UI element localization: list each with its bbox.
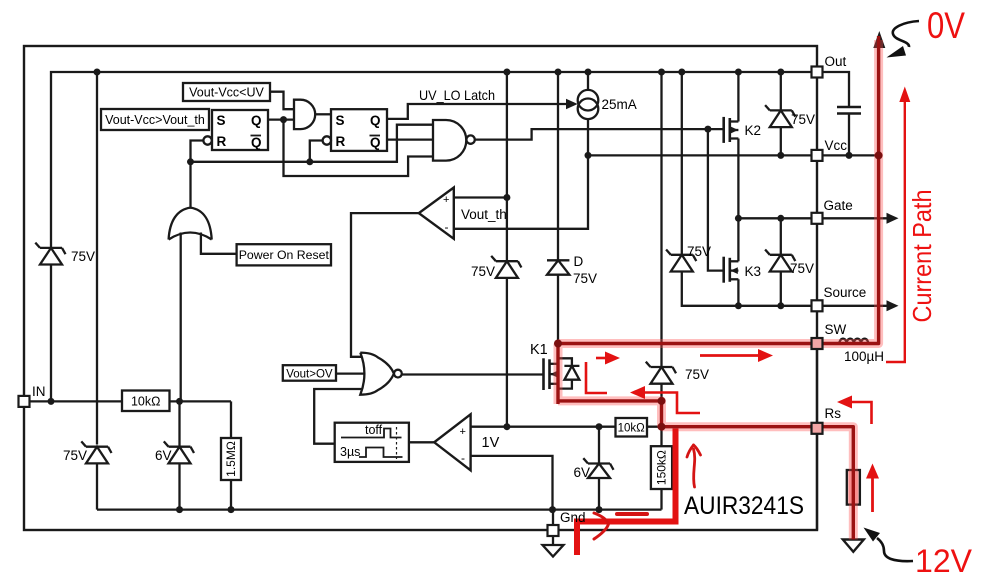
node top bus x738 — [735, 69, 742, 76]
svg-text:Vout>OV: Vout>OV — [286, 368, 333, 380]
svg-text:75V: 75V — [71, 249, 95, 264]
wire 25mA output — [454, 119, 588, 229]
wire D to K1 drain — [557, 275, 559, 344]
svg-text:Vcc: Vcc — [825, 138, 848, 153]
nor U6 bubble — [394, 370, 402, 378]
and-gate U2 — [294, 100, 315, 129]
svg-text:R: R — [336, 134, 346, 149]
inductor 100uH — [823, 339, 879, 344]
wire Vcc internal rail — [588, 154, 812, 156]
node reset-latch2R — [306, 158, 313, 165]
svg-text:Vout_th: Vout_th — [461, 207, 507, 222]
pin Source — [812, 300, 823, 311]
wire gate line — [738, 217, 811, 219]
annotation arrow left (recirculation) — [630, 386, 700, 413]
wire OV box to NOR — [336, 372, 364, 374]
wire toff to NOR input — [314, 389, 362, 444]
svg-text:1.5MΩ: 1.5MΩ — [224, 441, 238, 477]
wire K3 source — [737, 279, 739, 306]
svg-text:0V: 0V — [927, 5, 965, 46]
annotation current path arrowhead top — [899, 87, 910, 103]
pin IN — [19, 396, 30, 407]
swoosh arrow 12V — [864, 528, 914, 562]
node gnd bus 1.5M — [228, 506, 235, 513]
wire OR output riser — [189, 162, 191, 208]
diode D 75V — [547, 260, 569, 274]
node gnd bus 6V-left — [176, 506, 183, 513]
svg-text:Q: Q — [251, 113, 262, 128]
block condition Vout-Vcc&gt;Vout_th — [101, 109, 209, 130]
wire K2 source to gate line — [737, 139, 739, 219]
or-gate U-OR (reset combine) — [169, 208, 212, 240]
toff dashed marker — [396, 427, 398, 459]
block Power On Reset — [237, 244, 331, 265]
block toff one-shot — [335, 423, 409, 462]
latch U3 SR — [331, 109, 387, 151]
svg-text:+: + — [460, 426, 466, 438]
node top bus x588 — [585, 69, 592, 76]
wire comp Vout_th plus input — [454, 196, 507, 198]
svg-text:Q: Q — [251, 135, 262, 150]
node red Vcc 0V tap — [875, 151, 883, 159]
svg-text:25mA: 25mA — [602, 97, 637, 112]
svg-text:toff: toff — [365, 423, 383, 437]
arrowhead 0V rail — [873, 31, 885, 48]
wire latch2 Q to UV_LO arrow — [387, 104, 568, 119]
node red K1 drain — [554, 340, 562, 348]
wire SW to Rs border segment — [816, 349, 818, 423]
latch U1 R bubble — [203, 136, 211, 144]
zener 75V mid (on sense riser) — [491, 256, 521, 278]
resistor 1.5MOhm — [221, 438, 241, 480]
node 10k-6V junction — [176, 398, 183, 405]
node Vout_th sense — [503, 194, 510, 201]
wire gate external arrow — [823, 217, 889, 219]
wire zener75V branch left — [96, 72, 98, 445]
current path core dark red — [558, 36, 879, 540]
svg-text:75V: 75V — [685, 367, 709, 382]
wire Rs to bottom border segment — [816, 434, 818, 530]
wire comp Vout_th output to NOR — [351, 213, 419, 357]
wire comp 1V minus to gnd — [471, 456, 553, 510]
wire cap to Vcc — [848, 114, 850, 156]
wire K2 drain riser — [737, 72, 739, 122]
block condition Vout&gt;OV — [283, 365, 336, 381]
svg-text:10kΩ: 10kΩ — [131, 395, 161, 409]
svg-text:R: R — [217, 134, 227, 149]
svg-text:Gate: Gate — [824, 198, 853, 213]
node top bus x507 — [503, 69, 510, 76]
wire current sense line — [507, 426, 812, 428]
wire latch2 Qbar to NAND — [387, 138, 433, 140]
wire sense res to 12V gnd — [852, 505, 854, 540]
wire sense riser lower — [506, 278, 508, 427]
annotation handdrawn chevron (Gnd) — [594, 513, 647, 539]
nand-gate U4 — [433, 120, 466, 161]
wire 0V rail vertical — [877, 40, 879, 344]
wire out pin to cap — [823, 72, 850, 107]
svg-text:IN: IN — [32, 384, 46, 399]
wire Vcc to 0V rail — [823, 154, 879, 156]
node gate line K2K3 — [735, 215, 742, 222]
wire reset line — [191, 125, 434, 162]
svg-text:Vout-Vcc<UV: Vout-Vcc<UV — [189, 86, 264, 100]
zener 6V right — [583, 458, 613, 478]
svg-text:1V: 1V — [482, 435, 500, 451]
wire D riser — [557, 72, 559, 260]
wire 1.5M bottom — [230, 480, 232, 510]
block condition Vout-Vcc&lt;UV — [183, 83, 270, 101]
wire UV box to AND — [270, 92, 294, 110]
swoosh arrow 0V — [887, 21, 920, 58]
svg-text:3µs: 3µs — [340, 445, 360, 459]
wire K3 gate drop — [708, 129, 724, 271]
svg-text:Power On Reset: Power On Reset — [239, 248, 330, 262]
wire comp 1V plus input — [471, 426, 507, 428]
wire 6V right cathode — [598, 427, 600, 464]
wire 6V right anode — [598, 478, 600, 510]
wire latch1 Q to AND — [268, 118, 294, 120]
wire Rs to sense resistor — [823, 427, 853, 470]
wire gnd pin riser — [552, 510, 554, 525]
svg-text:150kΩ: 150kΩ — [655, 450, 669, 485]
ground symbol internal — [543, 545, 564, 557]
wire K1 drain — [557, 344, 559, 364]
svg-text:-: - — [461, 451, 465, 465]
svg-text:100µH: 100µH — [844, 349, 884, 364]
svg-text:75V: 75V — [790, 261, 814, 276]
wire source external arrow — [823, 305, 889, 307]
zener 75V lower-left — [81, 441, 111, 463]
node K1 source junction — [658, 397, 665, 404]
wire NAND out to K2/K3 gates — [475, 129, 724, 140]
arrowhead UV_LO to 25mA — [566, 99, 578, 110]
svg-text:75V: 75V — [791, 112, 815, 127]
svg-text:AUIR3241S: AUIR3241S — [684, 492, 804, 520]
transistor K3 — [724, 257, 739, 283]
wire K1 source — [558, 374, 662, 401]
svg-text:6V: 6V — [574, 465, 591, 480]
node Vcc rail cap tap — [846, 152, 853, 159]
zener 75V input clamp (on IN riser) — [35, 243, 65, 265]
svg-text:75V: 75V — [687, 244, 711, 259]
wire 25mA riser — [587, 72, 589, 90]
zener 6V left — [164, 441, 194, 463]
resistor Rs external — [847, 470, 860, 505]
IC boundary AUIR3241S — [24, 46, 817, 530]
node Vcc rail zener tap — [777, 152, 784, 159]
wire source line — [682, 272, 812, 306]
wire 150k top — [660, 427, 662, 447]
zener 75V out-vcc clamp — [765, 105, 795, 127]
wire SW line K1 drain to pin — [558, 342, 812, 344]
wire sw-clamp cathode riser — [660, 72, 662, 367]
svg-text:10kΩ: 10kΩ — [618, 423, 646, 435]
svg-text:SW: SW — [825, 322, 847, 337]
pin Out — [812, 67, 823, 78]
node sense line riser — [503, 423, 510, 430]
node reset-latch1R — [187, 158, 194, 165]
svg-text:+: + — [443, 194, 449, 206]
wire gs-clamp cathode — [780, 218, 782, 255]
toff waveform bottom — [359, 448, 403, 458]
svg-text:Source: Source — [824, 285, 867, 300]
node gnd bus 6V-right — [596, 506, 603, 513]
node 25mA to Vcc wire — [585, 152, 592, 159]
svg-text:S: S — [217, 113, 226, 128]
current path glow — [558, 40, 879, 540]
svg-text:Q: Q — [370, 135, 381, 150]
node gate line zener — [777, 215, 784, 222]
svg-text:Rs: Rs — [825, 406, 842, 421]
annotation arrow up (Rs resistor) — [866, 464, 879, 513]
nor-gate U6 — [360, 353, 394, 395]
latch U1 SR — [212, 110, 268, 150]
wire out-vcc clamp anode — [780, 127, 782, 155]
zener 75V sw clamp — [646, 362, 676, 384]
ground symbol 12V — [843, 540, 864, 552]
svg-text:Out: Out — [825, 54, 847, 69]
wire red ground return — [577, 429, 676, 556]
wire 6V riser to OR gate — [178, 401, 180, 446]
svg-text:K2: K2 — [745, 123, 762, 138]
wire comp 1V output to toff — [409, 441, 434, 443]
wire latch2 R to reset line — [310, 141, 323, 162]
node latch1 Q — [280, 116, 287, 123]
pin SW — [812, 338, 823, 349]
wire AND out to latch2 S — [315, 113, 331, 115]
wire OR input right to POR — [201, 233, 237, 254]
wire 75V anode to gnd bus — [96, 463, 98, 509]
node source line zener — [777, 302, 784, 309]
wire gnd pin to symbol — [552, 536, 554, 545]
resistor 10kOhm sense — [616, 418, 648, 437]
svg-text:Vout-Vcc>Vout_th: Vout-Vcc>Vout_th — [105, 113, 205, 127]
capacitor C1 — [837, 107, 861, 114]
wire K1 gate from NOR — [402, 373, 544, 375]
wire 150k bottom — [660, 489, 662, 510]
toff waveform top — [341, 429, 402, 438]
wire top supply bus — [51, 72, 812, 401]
wire latch1 R to reset line — [191, 141, 204, 162]
wire K3-left-zener cathode riser — [681, 72, 683, 255]
wire out-vcc clamp cathode — [780, 72, 782, 110]
node sense line 6V — [596, 423, 603, 430]
nand U4 bubble — [466, 135, 474, 143]
annotation arrow right (K1 loop top) — [586, 352, 620, 394]
zener 75V K3 left — [666, 250, 696, 272]
node source line K3 — [735, 302, 742, 309]
zener 75V gate-source clamp — [765, 250, 795, 272]
node top bus x682 — [678, 69, 685, 76]
svg-text:S: S — [336, 113, 345, 128]
svg-text:Q: Q — [370, 113, 381, 128]
wire sense riser x507 — [506, 72, 508, 262]
annotation arrow left (Rs) — [837, 396, 872, 425]
svg-text:75V: 75V — [573, 271, 597, 286]
pin Rs — [812, 423, 823, 434]
annotation handdrawn up arrow (150k) — [687, 445, 701, 487]
svg-text:75V: 75V — [471, 264, 495, 279]
node top bus left junction — [94, 69, 101, 76]
node top bus x661 — [658, 69, 665, 76]
annotation current path line — [886, 99, 905, 362]
svg-text:K3: K3 — [745, 264, 762, 279]
svg-text:Current Path: Current Path — [907, 190, 937, 323]
node top bus x781 — [777, 69, 784, 76]
wire latch1 Q underpass to NAND — [284, 120, 434, 176]
resistor 10kOhm input — [122, 391, 170, 412]
svg-text:K1: K1 — [530, 342, 548, 358]
svg-text:-: - — [445, 220, 449, 234]
node IN junction — [48, 398, 55, 405]
wire 6V anode to gnd bus — [178, 463, 180, 509]
diode K1 body — [558, 358, 580, 388]
svg-text:12V: 12V — [915, 543, 973, 579]
pin Vcc — [812, 150, 823, 161]
resistor 150kOhm — [651, 446, 672, 489]
wire sw-clamp anode — [660, 384, 662, 427]
wire K3 drain — [737, 218, 739, 261]
wire gs-clamp anode — [780, 272, 782, 306]
node gnd bus comparator — [549, 506, 556, 513]
node red K1 source junction — [658, 397, 666, 405]
wire 1.5M top — [230, 401, 232, 438]
annotation arrow right (SW current) — [700, 349, 773, 362]
node top bus x558 — [555, 69, 562, 76]
comparator U5 Vout_th — [419, 188, 454, 239]
svg-text:UV_LO Latch: UV_LO Latch — [419, 87, 495, 103]
wire OR input left (from 6V node) — [180, 233, 182, 402]
pin Gnd — [548, 525, 559, 536]
svg-text:75V: 75V — [63, 448, 87, 463]
node red sense junction — [658, 423, 666, 431]
wire ground bus — [97, 508, 662, 510]
svg-text:D: D — [574, 254, 584, 269]
wire IN input — [30, 400, 232, 402]
node K3 gate branch — [704, 126, 711, 133]
pin Gate — [812, 213, 823, 224]
transistor K2 — [724, 117, 739, 143]
svg-text:6V: 6V — [155, 448, 172, 463]
current source 25mA circles — [578, 90, 599, 111]
transistor K1 — [544, 358, 558, 390]
svg-text:Gnd: Gnd — [560, 510, 586, 525]
latch U3 R bubble — [323, 136, 331, 144]
comparator U7 1V — [434, 414, 470, 470]
